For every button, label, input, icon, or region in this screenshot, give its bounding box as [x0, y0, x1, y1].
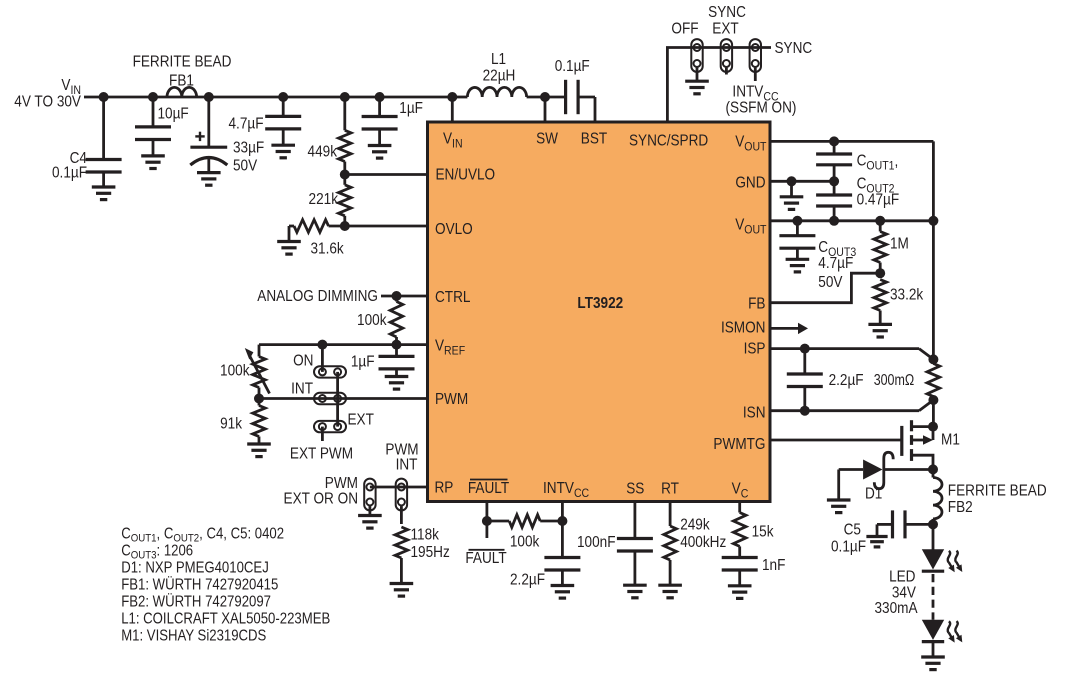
ground [271, 144, 295, 147]
wire VOUT right bus [932, 141, 935, 359]
svg-text:L1: L1 [491, 51, 506, 68]
junction M1 source [928, 464, 938, 474]
svg-text:100k: 100k [220, 363, 250, 380]
wire jumper bus [336, 372, 339, 427]
op-amp U1 LT3922 body [428, 122, 771, 502]
junction VREF ON jumper [317, 340, 327, 350]
node ISMON arrow [770, 327, 799, 330]
junction VIN rail 33uF [204, 92, 214, 102]
svg-text:SYNC/SPRD: SYNC/SPRD [629, 133, 708, 150]
svg-text:EXT PWM: EXT PWM [290, 446, 353, 463]
wire PWM [259, 397, 428, 400]
svg-text:ON: ON [293, 353, 313, 370]
svg-text:22µH: 22µH [483, 67, 516, 84]
wire VREF [259, 343, 428, 346]
capacitor COUT1 [833, 141, 836, 154]
svg-text:INT: INT [396, 457, 418, 474]
junction VIN rail 1uF [375, 92, 385, 102]
junction VOUT2 COUT3 [792, 216, 802, 226]
wire ISP [770, 347, 919, 350]
ferrite bead FB1 [167, 87, 197, 97]
ground [551, 584, 575, 587]
wire EN/UVLO [345, 173, 428, 176]
svg-text:CTRL: CTRL [435, 289, 470, 306]
ground [790, 181, 793, 197]
capacitor 2.2uF intvcc [544, 556, 580, 559]
junction VOUT2 bus [928, 216, 938, 226]
junction VOUT2 COUT12 [829, 216, 839, 226]
junction L1 left [447, 92, 457, 102]
ground [827, 498, 851, 501]
svg-text:ISN: ISN [743, 405, 766, 422]
ground [92, 185, 116, 188]
wire RP [370, 486, 428, 489]
jumper ON [314, 366, 346, 377]
svg-text:EXT OR ON: EXT OR ON [284, 491, 358, 508]
svg-text:FAULT: FAULT [465, 550, 506, 567]
inductor L1 22uH [452, 96, 467, 99]
svg-text:100k: 100k [510, 534, 540, 551]
svg-text:EXT: EXT [712, 21, 738, 38]
resistor 1M [879, 221, 882, 232]
svg-text:SS: SS [626, 481, 644, 498]
svg-text:PWM: PWM [435, 391, 468, 408]
svg-text:M1: VISHAY Si2319CDS: M1: VISHAY Si2319CDS [121, 628, 266, 645]
svg-text:SYNC: SYNC [775, 40, 813, 57]
jumper PWM EXT OR ON [364, 479, 375, 511]
junction M1 drain [928, 422, 938, 432]
ground [141, 154, 165, 157]
capacitor 1uF input [378, 97, 381, 117]
wire LED dashed [932, 574, 935, 620]
svg-text:4.7µF: 4.7µF [228, 116, 263, 133]
capacitor C4 [102, 97, 105, 160]
wire FB [770, 273, 880, 303]
capacitor BST 0.1uF [545, 96, 566, 99]
svg-text:COUT1,: COUT1, [857, 153, 899, 173]
LED D3 [922, 620, 944, 640]
svg-text:1nF: 1nF [762, 557, 785, 574]
svg-text:LED: LED [889, 569, 915, 586]
diode D1 [839, 468, 863, 471]
wire CTRL [381, 295, 428, 298]
capacitor 4.7uF [282, 97, 285, 116]
wire LED anode [932, 524, 935, 550]
junction ISP cap [800, 344, 810, 354]
ground [658, 584, 682, 587]
junction EN/UVLO divider [340, 170, 350, 180]
svg-text:OVLO: OVLO [435, 221, 473, 238]
junction FAULT [482, 516, 492, 526]
wire SW pin [544, 97, 547, 122]
capacitor COUT2 [833, 181, 836, 195]
svg-text:D1: D1 [865, 486, 882, 503]
wire INTVCC pin [561, 502, 564, 558]
svg-text:4V TO 30V: 4V TO 30V [14, 94, 81, 111]
resistor 100k ctrl [395, 296, 398, 302]
junction GND pin gnd [787, 176, 797, 186]
svg-text:195Hz: 195Hz [411, 544, 450, 561]
svg-text:SYNC: SYNC [708, 4, 746, 21]
wire EXT PWM stub [321, 427, 324, 441]
wire SYNC/SPRD [667, 48, 771, 123]
svg-text:SW: SW [536, 131, 558, 148]
svg-text:33µF: 33µF [233, 140, 264, 157]
svg-text:330mA: 330mA [874, 600, 917, 617]
svg-text:100nF: 100nF [577, 534, 616, 551]
svg-text:OFF: OFF [671, 21, 698, 38]
svg-text:FB1: WÜRTH 7427920415: FB1: WÜRTH 7427920415 [121, 574, 278, 593]
resistor 15k vc [738, 502, 741, 513]
jumper INT [314, 393, 346, 404]
resistor 249k rt [669, 502, 672, 527]
resistor 221k [339, 185, 352, 216]
svg-text:2.2µF: 2.2µF [510, 572, 545, 589]
svg-text:EN/UVLO: EN/UVLO [436, 167, 496, 184]
svg-text:ISMON: ISMON [721, 320, 766, 337]
svg-text:100k: 100k [357, 312, 387, 329]
junction VREF 100k [392, 340, 402, 350]
svg-text:FERRITE BEAD: FERRITE BEAD [948, 483, 1047, 500]
capacitor 1nF vc [722, 556, 758, 559]
svg-text:FB: FB [748, 296, 765, 313]
capacitor 33uF polarized [207, 97, 210, 147]
ground [921, 655, 945, 658]
transistor M1 [900, 426, 903, 456]
capacitor 10uF [152, 97, 155, 127]
svg-text:50V: 50V [818, 274, 842, 291]
capacitor COUT3 [796, 221, 799, 236]
junction CTRL 100k [392, 291, 402, 301]
svg-text:1µF: 1µF [399, 100, 423, 117]
wire VIN rail [84, 96, 452, 99]
junction L1 right SW [540, 92, 550, 102]
junction VOUT2 1M [875, 216, 885, 226]
svg-text:300mΩ: 300mΩ [874, 372, 915, 390]
svg-text:GND: GND [735, 175, 765, 192]
wire VOUT top row [770, 140, 933, 143]
svg-text:L1: COILCRAFT XAL5050-223MEB: L1: COILCRAFT XAL5050-223MEB [121, 611, 330, 628]
junction FB2 C5 [928, 519, 938, 529]
svg-text:221k: 221k [309, 191, 339, 208]
ground [728, 584, 752, 587]
junction sense top [928, 354, 938, 364]
jumper SYNC EXT [721, 39, 732, 72]
svg-text:0.1µF: 0.1µF [52, 165, 87, 182]
junction sense bottom [928, 395, 938, 405]
ground [868, 323, 892, 326]
svg-text:33.2k: 33.2k [890, 287, 924, 304]
junction FB divider [875, 268, 885, 278]
svg-text:15k: 15k [752, 524, 774, 541]
svg-text:0.47µF: 0.47µF [857, 192, 900, 209]
wire FAULT pin [485, 502, 488, 539]
svg-text:(SSFM ON): (SSFM ON) [726, 100, 797, 117]
svg-text:LT3922: LT3922 [577, 295, 623, 312]
wire GND row [770, 180, 834, 183]
svg-text:FAULT: FAULT [468, 480, 509, 497]
junction VIN rail C4 [99, 92, 109, 102]
jumper SYNC OFF [691, 39, 702, 72]
junction VIN rail 4.7uF [278, 92, 288, 102]
svg-text:1M: 1M [890, 236, 909, 253]
svg-text:INT: INT [291, 381, 313, 398]
resistor 31.6k [294, 220, 329, 233]
capacitor C5 [891, 510, 894, 538]
svg-text:10µF: 10µF [158, 106, 189, 123]
svg-text:RT: RT [661, 481, 679, 498]
wire OVLO [345, 225, 428, 228]
svg-text:BST: BST [581, 131, 607, 148]
ground [866, 535, 887, 538]
svg-text:31.6k: 31.6k [311, 241, 345, 258]
wire PWMTG gate [770, 439, 902, 442]
resistor 91k [258, 399, 261, 406]
potentiometer 100k [258, 345, 261, 357]
svg-text:C5: C5 [844, 522, 861, 539]
ground [368, 144, 392, 147]
junction INTVCC [557, 516, 567, 526]
jumper EXT [314, 421, 346, 432]
jumper SYNC INTVCC [750, 39, 761, 72]
junction VIN rail 10uF [148, 92, 158, 102]
junction OVLO divider [340, 221, 350, 231]
svg-text:PWMTG: PWMTG [713, 436, 765, 453]
wire ON jumper to VREF [321, 345, 324, 372]
wire VIN pin [451, 97, 454, 122]
resistor 33.2k [874, 280, 887, 311]
svg-text:249k: 249k [680, 516, 710, 533]
svg-text:449k: 449k [308, 144, 338, 161]
ground [390, 582, 414, 585]
svg-text:D1: NXP PMEG4010CEJ: D1: NXP PMEG4010CEJ [121, 560, 269, 577]
svg-text:4.7µF: 4.7µF [818, 255, 853, 272]
svg-text:EXT: EXT [348, 412, 374, 429]
wire VOUT second row [770, 219, 933, 222]
svg-text:M1: M1 [941, 432, 960, 449]
wire ISN [770, 409, 919, 412]
svg-text:0.1µF: 0.1µF [555, 58, 590, 75]
svg-text:1µF: 1µF [351, 354, 375, 371]
junction VIN rail 449k [340, 92, 350, 102]
svg-text:ISP: ISP [744, 341, 766, 358]
svg-text:RP: RP [435, 480, 454, 497]
ground [685, 80, 709, 83]
resistor 449k [343, 97, 346, 130]
svg-text:50V: 50V [233, 158, 257, 175]
ground [786, 258, 810, 261]
junction VOUT COUT1 [829, 136, 839, 146]
resistor 118k [395, 527, 408, 558]
capacitor 100nF ss [634, 502, 637, 539]
ground [358, 514, 382, 517]
svg-text:FB1: FB1 [169, 73, 194, 90]
svg-text:118k: 118k [411, 527, 440, 544]
svg-text:FB2: FB2 [948, 499, 973, 516]
resistor 100k fault [487, 520, 509, 523]
svg-text:FB2: WÜRTH 742792097: FB2: WÜRTH 742792097 [121, 591, 271, 610]
svg-text:2.2µF: 2.2µF [829, 372, 864, 389]
svg-text:ANALOG DIMMING: ANALOG DIMMING [257, 288, 378, 305]
LED D2 [922, 549, 944, 569]
ground [277, 240, 301, 243]
ground [385, 375, 409, 378]
junction ISN cap [800, 406, 810, 416]
svg-text:FERRITE BEAD: FERRITE BEAD [133, 54, 232, 71]
jumper PWM INT [396, 479, 407, 511]
junction COUT1 COUT2 [829, 176, 839, 186]
ground [247, 442, 271, 445]
svg-text:400kHz: 400kHz [680, 534, 726, 551]
resistor 300mohm [927, 364, 940, 397]
ground [623, 584, 647, 587]
capacitor 2.2uF sense [803, 349, 806, 374]
svg-text:91k: 91k [220, 416, 242, 433]
capacitor 1uF vref [395, 345, 398, 357]
wire LED cathode [932, 642, 935, 657]
ground [197, 171, 221, 174]
svg-text:COUT1, COUT2, C4, C5: 0402: COUT1, COUT2, C4, C5: 0402 [121, 526, 284, 545]
svg-text:0.1µF: 0.1µF [831, 539, 866, 556]
junction pot 91k [254, 394, 264, 404]
ferrite bead FB2 [932, 469, 935, 477]
